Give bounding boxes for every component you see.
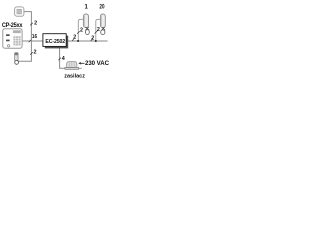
unifon 1 (handset) bbox=[83, 5, 89, 35]
wire CP to EC horizontal bbox=[22, 40, 43, 42]
svg-text:2: 2 bbox=[34, 21, 37, 27]
svg-text:4: 4 bbox=[62, 56, 65, 62]
junction dot 1 bbox=[77, 40, 79, 42]
svg-text:2: 2 bbox=[34, 50, 37, 56]
unifon 2 (handset) bbox=[99, 5, 105, 35]
tick on unifon 2 drop bbox=[95, 31, 98, 34]
tick on bus segment 1 bbox=[72, 38, 74, 41]
svg-text:230 VAC: 230 VAC bbox=[85, 60, 110, 67]
power supply (zasilacz) icon bbox=[65, 61, 82, 69]
wire trunk vertical from button down to strike bbox=[18, 12, 31, 62]
wire lead + hook unifon 1 bbox=[78, 19, 84, 41]
tick on unifon 1 drop bbox=[77, 31, 80, 34]
svg-text:2: 2 bbox=[97, 27, 100, 33]
tick on power cable bbox=[58, 58, 60, 61]
button icon top-left bbox=[15, 7, 24, 16]
junction dot 2 bbox=[95, 40, 97, 42]
arrow 230 VAC bbox=[78, 60, 109, 67]
panel CP-25xx bbox=[3, 29, 22, 48]
EC-2502 box with shadow bbox=[43, 34, 68, 49]
tick on panel cable bbox=[29, 40, 31, 43]
svg-text:20: 20 bbox=[99, 5, 105, 11]
wire EC down to power supply bbox=[60, 46, 66, 68]
svg-text:CP-25xx: CP-25xx bbox=[2, 23, 23, 29]
svg-text:2: 2 bbox=[80, 28, 83, 34]
tick on button cable bbox=[30, 23, 33, 26]
svg-text:2: 2 bbox=[91, 36, 94, 42]
svg-text:2: 2 bbox=[73, 34, 76, 40]
wire lead + hook unifon 2 bbox=[96, 19, 101, 41]
wire bus right of EC bbox=[67, 40, 108, 42]
tick on bus segment 2 bbox=[91, 38, 93, 41]
svg-text:16: 16 bbox=[32, 34, 37, 40]
tick on strike cable bbox=[30, 52, 33, 55]
svg-text:zasilacz: zasilacz bbox=[64, 73, 85, 79]
svg-text:EC-2502: EC-2502 bbox=[45, 39, 65, 45]
electric strike (door lock) bottom-left bbox=[15, 53, 19, 65]
